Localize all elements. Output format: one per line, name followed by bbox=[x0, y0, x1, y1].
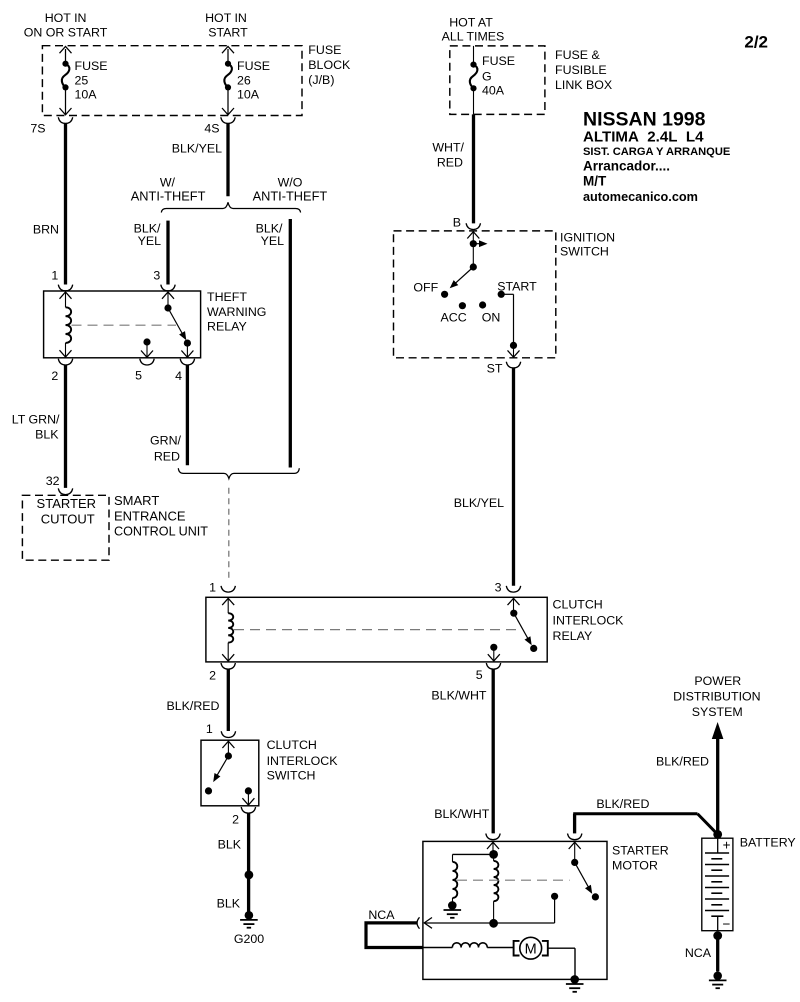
svg-text:BLK/RED: BLK/RED bbox=[656, 755, 709, 769]
svg-text:−: − bbox=[722, 916, 730, 931]
brace merge to clutch interlock relay bbox=[178, 468, 299, 478]
label SMART ENTRANCE CONTROL UNIT bbox=[114, 493, 208, 538]
starter motor solenoid feed bbox=[453, 842, 500, 859]
theft warning relay pin 5 connector bbox=[135, 359, 154, 383]
battery negative wire NCA bbox=[685, 931, 722, 971]
svg-text:2: 2 bbox=[232, 813, 239, 827]
svg-text:ON: ON bbox=[482, 310, 501, 324]
svg-text:W/O: W/O bbox=[278, 175, 303, 189]
svg-text:1: 1 bbox=[209, 581, 216, 595]
svg-text:(J/B): (J/B) bbox=[308, 73, 334, 87]
clutch interlock relay box bbox=[206, 597, 547, 662]
wire LT GRN/BLK to starter cutout bbox=[12, 365, 66, 488]
wire NCA loop bbox=[366, 923, 423, 948]
connector 7S bbox=[30, 117, 72, 135]
theft warning relay pin 2 connector bbox=[51, 359, 72, 383]
svg-text:DISTRIBUTION: DISTRIBUTION bbox=[673, 690, 760, 704]
starter motor armature to ground bbox=[548, 948, 575, 979]
starter motor hold-in coil bbox=[453, 854, 458, 901]
svg-text:INTERLOCK: INTERLOCK bbox=[553, 613, 625, 627]
wire BLK/RED to clutch interlock switch bbox=[166, 669, 228, 731]
clutch interlock switch contacts bbox=[205, 741, 255, 805]
svg-text:M: M bbox=[525, 941, 537, 957]
ignition switch dashed box bbox=[394, 231, 556, 358]
ignition switch position ACC bbox=[441, 302, 467, 324]
label IGNITION SWITCH bbox=[560, 230, 615, 258]
theft warning relay link dashed bbox=[72, 324, 177, 326]
label CLUTCH INTERLOCK SWITCH bbox=[267, 738, 339, 783]
svg-text:HOT IN: HOT IN bbox=[45, 11, 87, 25]
svg-text:GRN/: GRN/ bbox=[150, 434, 182, 448]
svg-text:SWITCH: SWITCH bbox=[560, 245, 609, 259]
svg-text:FUSIBLE: FUSIBLE bbox=[555, 63, 607, 77]
label CLUTCH INTERLOCK RELAY bbox=[553, 598, 625, 644]
starter cutout pin 32 connector bbox=[58, 488, 72, 494]
svg-text:STARTER: STARTER bbox=[612, 844, 669, 858]
svg-text:START: START bbox=[497, 280, 537, 294]
svg-text:5: 5 bbox=[135, 369, 142, 383]
brace anti-theft split bbox=[131, 175, 328, 212]
svg-text:BLK: BLK bbox=[217, 896, 241, 910]
starter cutout dashed box bbox=[22, 495, 109, 560]
svg-text:OFF: OFF bbox=[413, 281, 438, 295]
svg-text:CLUTCH: CLUTCH bbox=[553, 598, 603, 612]
starter motor solenoid link dashed bbox=[457, 879, 570, 881]
svg-text:HOT AT: HOT AT bbox=[449, 16, 493, 30]
svg-text:CLUTCH: CLUTCH bbox=[267, 738, 317, 752]
label POWER DISTRIBUTION SYSTEM bbox=[673, 674, 760, 719]
clutch interlock switch pin 2 connector bbox=[232, 807, 256, 827]
ignition switch rotor arm to OFF bbox=[450, 267, 474, 288]
starter motor hold-in coil ground bbox=[444, 901, 462, 918]
svg-text:+: + bbox=[723, 838, 731, 853]
ignition switch position OFF bbox=[413, 281, 448, 298]
clutch interlock relay link dashed bbox=[234, 629, 522, 631]
fuse and fusible link box label bbox=[555, 48, 612, 92]
svg-text:25: 25 bbox=[75, 73, 89, 87]
svg-text:1: 1 bbox=[51, 269, 58, 283]
connector 4S bbox=[204, 117, 235, 135]
svg-text:BATTERY: BATTERY bbox=[740, 836, 796, 850]
svg-text:BLK/WHT: BLK/WHT bbox=[434, 807, 490, 821]
battery ground bbox=[709, 972, 727, 989]
svg-text:NCA: NCA bbox=[368, 908, 395, 922]
svg-text:ACC: ACC bbox=[441, 310, 467, 324]
ignition switch position ON bbox=[479, 301, 500, 324]
theft warning relay pin 3 connector bbox=[153, 269, 175, 291]
svg-text:40A: 40A bbox=[482, 84, 505, 98]
theft warning relay box bbox=[44, 291, 201, 358]
page number 2/2 bbox=[744, 33, 768, 52]
wire BLK/YEL from 4S bbox=[172, 123, 228, 196]
svg-text:SYSTEM: SYSTEM bbox=[692, 705, 743, 719]
theft warning relay coil bbox=[60, 292, 72, 357]
svg-text:M/T: M/T bbox=[583, 174, 607, 189]
svg-text:BLK/RED: BLK/RED bbox=[596, 797, 649, 811]
dashed wire to clutch interlock relay pin 1 bbox=[228, 488, 230, 582]
svg-text:BLK/WHT: BLK/WHT bbox=[431, 689, 487, 703]
svg-text:3: 3 bbox=[153, 269, 160, 283]
label BATTERY bbox=[740, 836, 796, 850]
node label HOT AT ALL TIMES bbox=[442, 16, 505, 44]
svg-text:FUSE: FUSE bbox=[237, 59, 270, 73]
svg-text:WARNING: WARNING bbox=[207, 305, 266, 319]
svg-text:4S: 4S bbox=[204, 122, 219, 136]
svg-text:IGNITION: IGNITION bbox=[560, 230, 615, 244]
theft warning relay pin 4 connector bbox=[175, 359, 195, 383]
wire BLK to ground bbox=[217, 813, 249, 913]
svg-text:LT GRN/: LT GRN/ bbox=[12, 413, 60, 427]
svg-text:BRN: BRN bbox=[33, 223, 59, 237]
wire BLK/YEL from ST to clutch interlock relay bbox=[454, 368, 514, 586]
svg-text:POWER: POWER bbox=[694, 674, 741, 688]
svg-text:MOTOR: MOTOR bbox=[612, 859, 658, 873]
svg-text:32: 32 bbox=[46, 474, 60, 488]
svg-text:YEL: YEL bbox=[261, 234, 285, 248]
wire BLK/YEL w/ anti-theft branch bbox=[134, 221, 168, 285]
svg-text:BLK/RED: BLK/RED bbox=[166, 699, 219, 713]
wire BLK/WHT from clutch relay pin 5 to starter motor bbox=[431, 669, 493, 833]
fuse 25 10A bbox=[60, 46, 108, 114]
starter motor ground bbox=[566, 975, 584, 992]
svg-text:RELAY: RELAY bbox=[207, 320, 247, 334]
svg-text:FUSE &: FUSE & bbox=[555, 48, 600, 62]
clutch interlock switch box bbox=[201, 740, 259, 806]
clutch interlock switch pin 1 connector bbox=[206, 722, 236, 738]
svg-text:FUSE: FUSE bbox=[308, 43, 341, 57]
wire BLK/RED to battery bbox=[573, 797, 718, 834]
starter motor B connector bbox=[568, 834, 582, 840]
svg-text:YEL: YEL bbox=[138, 234, 162, 248]
svg-text:ENTRANCE: ENTRANCE bbox=[114, 508, 186, 523]
ignition switch terminal B feed bbox=[467, 232, 487, 271]
svg-text:ON OR START: ON OR START bbox=[24, 26, 108, 40]
node label HOT IN START bbox=[205, 11, 248, 40]
svg-text:4: 4 bbox=[175, 369, 182, 383]
svg-text:HOT IN: HOT IN bbox=[205, 11, 247, 25]
ground G200 bbox=[234, 911, 264, 946]
svg-text:ST: ST bbox=[487, 362, 503, 376]
svg-text:10A: 10A bbox=[237, 88, 260, 102]
svg-text:26: 26 bbox=[237, 73, 251, 87]
starter motor contact node bbox=[424, 893, 558, 929]
svg-text:BLK: BLK bbox=[35, 428, 59, 442]
battery positive junction bbox=[713, 830, 722, 839]
clutch interlock relay coil bbox=[222, 598, 234, 661]
svg-text:2: 2 bbox=[209, 669, 216, 683]
svg-text:RELAY: RELAY bbox=[553, 629, 593, 643]
ignition switch START to ST route bbox=[501, 294, 519, 357]
ignition switch terminal B connector bbox=[453, 215, 481, 229]
starter motor pull-in coil bbox=[494, 854, 499, 923]
starter motor M motor bbox=[514, 937, 548, 959]
node label HOT IN ON OR START bbox=[24, 11, 108, 40]
label STARTER MOTOR bbox=[612, 844, 669, 873]
svg-text:W/: W/ bbox=[160, 175, 176, 189]
wire BRN from 7S to theft warning relay pin 1 bbox=[33, 123, 66, 284]
label THEFT WARNING RELAY bbox=[207, 290, 266, 334]
svg-text:SIST. CARGA Y ARRANQUE: SIST. CARGA Y ARRANQUE bbox=[583, 146, 730, 158]
svg-text:ALL TIMES: ALL TIMES bbox=[442, 30, 505, 44]
clutch interlock relay pin 3 connector bbox=[495, 581, 521, 595]
svg-text:B: B bbox=[453, 215, 461, 229]
svg-text:FUSE: FUSE bbox=[482, 54, 515, 68]
starter motor S connector bbox=[486, 834, 500, 840]
svg-text:Arrancador....: Arrancador.... bbox=[583, 158, 670, 173]
fuse block label bbox=[308, 43, 351, 87]
svg-text:ALTIMA 2.4L L4: ALTIMA 2.4L L4 bbox=[583, 129, 704, 146]
svg-text:2/2: 2/2 bbox=[744, 33, 768, 52]
svg-text:START: START bbox=[208, 26, 248, 40]
svg-text:BLK: BLK bbox=[218, 838, 242, 852]
starter motor NCA connector bbox=[368, 908, 419, 929]
svg-text:RED: RED bbox=[437, 155, 463, 169]
clutch interlock relay pin 2 connector bbox=[209, 663, 235, 683]
svg-text:LINK BOX: LINK BOX bbox=[555, 78, 612, 92]
svg-text:RED: RED bbox=[154, 450, 180, 464]
svg-text:STARTER: STARTER bbox=[37, 496, 96, 511]
svg-text:ANTI-THEFT: ANTI-THEFT bbox=[131, 189, 206, 204]
svg-text:FUSE: FUSE bbox=[75, 59, 108, 73]
svg-text:NISSAN 1998: NISSAN 1998 bbox=[583, 109, 706, 131]
theft warning relay pin 1 connector bbox=[51, 269, 72, 291]
svg-text:SMART: SMART bbox=[114, 493, 159, 508]
svg-text:5: 5 bbox=[476, 668, 483, 682]
title block bbox=[583, 109, 730, 205]
starter motor armature circuit bbox=[423, 943, 514, 948]
svg-text:10A: 10A bbox=[75, 88, 98, 102]
svg-text:NCA: NCA bbox=[685, 946, 712, 960]
wire GRN/RED from theft relay pin 4 bbox=[150, 365, 187, 465]
svg-text:BLK/YEL: BLK/YEL bbox=[172, 142, 222, 156]
svg-text:WHT/: WHT/ bbox=[432, 141, 464, 155]
svg-text:G: G bbox=[482, 69, 492, 83]
svg-text:BLOCK: BLOCK bbox=[308, 58, 351, 72]
svg-text:3: 3 bbox=[495, 581, 502, 595]
svg-text:THEFT: THEFT bbox=[207, 290, 247, 304]
svg-text:INTERLOCK: INTERLOCK bbox=[267, 754, 339, 768]
svg-text:automecanico.com: automecanico.com bbox=[583, 190, 698, 204]
wire BLK/YEL w/o anti-theft branch bbox=[256, 219, 291, 468]
theft warning relay switch bbox=[141, 292, 193, 357]
svg-text:BLK/YEL: BLK/YEL bbox=[454, 496, 504, 510]
svg-text:G200: G200 bbox=[234, 932, 264, 946]
svg-text:1: 1 bbox=[206, 722, 213, 736]
splice junction bbox=[245, 871, 254, 880]
wire WHT/RED to ignition switch bbox=[432, 114, 473, 223]
starter motor box bbox=[423, 841, 607, 979]
clutch interlock relay pin 1 connector bbox=[209, 581, 235, 595]
svg-text:ANTI-THEFT: ANTI-THEFT bbox=[253, 189, 328, 204]
clutch interlock relay pin 5 connector bbox=[476, 663, 501, 682]
fuse block (J/B) dashed box bbox=[42, 46, 302, 116]
fuse and fusible link box dashed box bbox=[450, 46, 545, 115]
svg-text:SWITCH: SWITCH bbox=[267, 768, 316, 782]
svg-text:2: 2 bbox=[51, 369, 58, 383]
battery bbox=[702, 838, 733, 932]
wire BLK/RED to power distribution bbox=[656, 739, 718, 832]
svg-text:CUTOUT: CUTOUT bbox=[41, 511, 95, 526]
clutch interlock relay switch bbox=[488, 598, 538, 661]
svg-text:CONTROL UNIT: CONTROL UNIT bbox=[114, 525, 208, 539]
fuse 26 10A bbox=[222, 46, 270, 114]
fuse G 40A bbox=[470, 46, 515, 115]
starter motor switch bbox=[569, 842, 599, 900]
svg-text:7S: 7S bbox=[30, 122, 45, 136]
ignition switch position START bbox=[497, 280, 537, 298]
ignition switch terminal ST connector bbox=[487, 362, 521, 376]
power distribution arrow bbox=[712, 722, 724, 739]
